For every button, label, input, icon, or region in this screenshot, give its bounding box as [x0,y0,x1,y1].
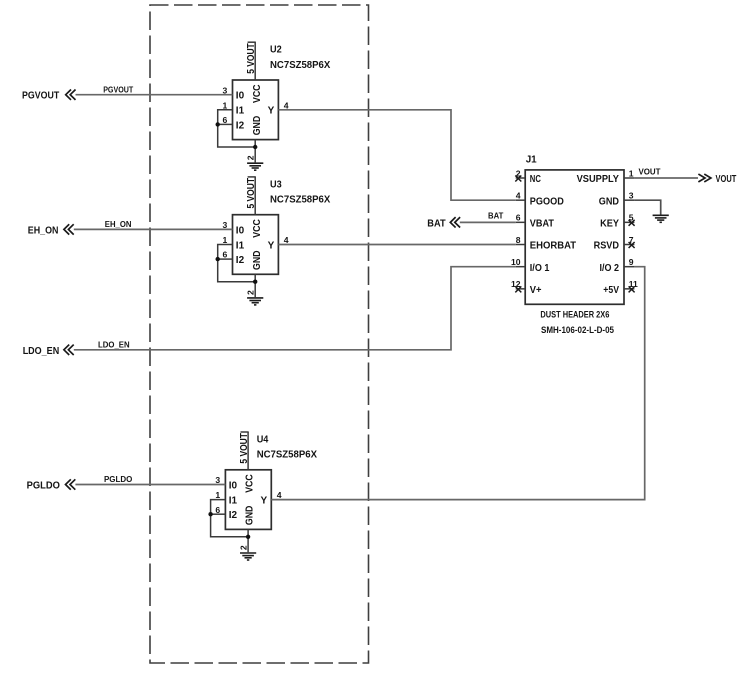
svg-text:PGLDO: PGLDO [27,480,60,492]
J1 pin 3 GND stub [624,199,634,201]
svg-text:4: 4 [284,235,289,245]
svg-text:+5V: +5V [603,285,619,296]
svg-text:9: 9 [629,257,634,267]
svg-text:I0: I0 [229,480,238,491]
wire J1 I/O 2 to U4 Y [271,267,644,500]
wire U2 Y to J1 PGOOD [278,110,515,200]
U3 pin 2 GND wire [254,274,256,297]
svg-text:5 VOUT: 5 VOUT [246,43,257,74]
svg-text:NC7SZ58P6X: NC7SZ58P6X [270,194,330,206]
svg-text:U4: U4 [257,434,269,446]
svg-text:6: 6 [215,505,220,515]
J1 pin 12 V+ stub [516,288,526,290]
U2 junction at I2 tie [216,122,220,126]
J1 pin 11 +5V stub [624,288,634,290]
svg-text:I/O 2: I/O 2 [600,263,620,274]
svg-text:2: 2 [246,155,256,160]
U2 I1-I2 tie wire to pin2 [218,110,256,147]
wire BAT to J1 VBAT [460,221,516,223]
wire PGVOUT to U2 I0 [76,94,233,96]
J1 pin 4 PGOOD stub [516,199,526,201]
svg-text:PGVOUT: PGVOUT [22,90,60,102]
svg-text:NC7SZ58P6X: NC7SZ58P6X [270,59,330,71]
svg-text:5 VOUT: 5 VOUT [239,433,250,464]
J1 pin 9 I/O 2 stub [624,266,634,268]
svg-text:I1: I1 [229,496,238,507]
U2 junction at pin2 tie [253,145,257,149]
svg-text:VCC: VCC [252,85,263,104]
J1 no-connect X pin 5 [629,220,635,226]
svg-text:I1: I1 [236,240,245,251]
J1 no-connect X pin 11 [629,286,635,292]
VOUT port flag [699,175,711,182]
svg-text:PGOOD: PGOOD [530,196,564,207]
U4 pin 2 GND wire [247,529,249,552]
J1 no-connect X pin 2 [515,176,521,182]
svg-text:I/O 1: I/O 1 [530,263,550,274]
U4 junction at pin2 tie [246,535,250,539]
svg-text:8: 8 [516,235,521,245]
U2 ground symbol [247,162,263,164]
svg-text:NC: NC [530,174,541,185]
svg-text:I0: I0 [236,225,245,236]
svg-text:EH_ON: EH_ON [105,220,132,229]
svg-text:GND: GND [252,251,263,271]
wire LDO_EN to J1 I/O 1 [74,267,516,350]
svg-text:4: 4 [284,100,289,110]
wire J1 VSUPPLY to VOUT flag [634,177,698,179]
svg-text:U2: U2 [270,44,282,56]
U2 pin 2 GND wire [254,140,256,163]
U4 junction at I2 tie [208,512,212,516]
svg-text:LDO_EN: LDO_EN [98,340,130,349]
svg-text:GND: GND [252,116,263,136]
svg-text:1: 1 [629,168,634,178]
svg-text:6: 6 [223,250,228,260]
svg-text:RSVD: RSVD [594,241,619,252]
svg-text:EH_ON: EH_ON [28,224,59,236]
wire EH_ON to U3 I0 [74,228,233,230]
svg-text:3: 3 [223,220,228,230]
J1 pin 5 KEY stub [624,221,634,223]
svg-text:I1: I1 [236,106,245,117]
J1 pin 8 EHORBAT stub [516,244,526,246]
svg-text:6: 6 [223,115,228,125]
svg-text:3: 3 [215,475,220,485]
svg-text:DUST HEADER 2X6: DUST HEADER 2X6 [540,309,609,320]
J1 no-connect X pin 12 [515,286,521,292]
svg-text:Y: Y [261,496,268,507]
svg-text:10: 10 [511,257,521,267]
U4 pin 5 VCC wire to VOUT net [247,432,249,470]
svg-text:J1: J1 [526,154,537,166]
U3 NC7SZ58P6X body [233,215,279,275]
svg-text:PGLDO: PGLDO [104,475,132,484]
svg-text:4: 4 [516,190,521,200]
svg-text:Y: Y [268,106,275,117]
wire J1 GND pin 3 to ground [634,200,660,214]
J1 pin 7 RSVD stub [624,244,634,246]
svg-text:4: 4 [277,490,282,500]
J1 pin 6 VBAT stub [516,221,526,223]
U4 I1-I2 tie wire to pin2 [211,500,249,537]
svg-text:I0: I0 [236,91,245,102]
U4 ground symbol [240,552,256,554]
svg-text:6: 6 [516,213,521,223]
svg-text:VOUT: VOUT [716,173,737,185]
wire PGLDO to U4 I0 [75,484,225,486]
U3 ground symbol [247,297,263,299]
svg-text:VSUPPLY: VSUPPLY [577,174,620,185]
svg-text:Y: Y [268,240,275,251]
wire U3 Y to J1 EHORBAT [278,244,515,246]
connector J1 body [525,170,624,304]
U3 junction at pin2 tie [253,280,257,284]
svg-text:2: 2 [246,290,256,295]
svg-text:SMH-106-02-L-D-05: SMH-106-02-L-D-05 [541,324,614,335]
J1 pin 2 NC stub [516,177,526,179]
dashed boundary box [150,5,369,663]
svg-text:VOUT: VOUT [639,168,661,177]
svg-text:U3: U3 [270,178,282,190]
svg-text:V+: V+ [530,285,542,296]
U2 NC7SZ58P6X body [233,80,279,140]
svg-text:I2: I2 [229,510,238,521]
svg-text:PGVOUT: PGVOUT [103,85,133,94]
svg-text:BAT: BAT [488,211,503,220]
svg-text:3: 3 [629,190,634,200]
J1 pin 10 I/O 1 stub [516,266,526,268]
U3 junction at I2 tie [216,257,220,261]
U3 I1-I2 tie wire to pin2 [218,245,256,282]
svg-text:BAT: BAT [427,217,446,229]
svg-text:2: 2 [239,545,249,550]
svg-text:NC7SZ58P6X: NC7SZ58P6X [257,449,317,461]
U2 pin 5 VCC wire to VOUT net [254,42,256,80]
svg-text:VBAT: VBAT [530,218,554,229]
svg-text:LDO_EN: LDO_EN [23,345,60,357]
svg-text:GND: GND [245,506,256,526]
J1 no-connect X pin 7 [629,242,635,248]
U3 pin 5 VCC wire to VOUT net [254,177,256,215]
svg-text:3: 3 [223,85,228,95]
ground symbol at J1 GND [653,214,669,216]
svg-text:VCC: VCC [252,219,263,238]
svg-text:I2: I2 [236,255,245,266]
svg-text:1: 1 [215,490,220,500]
svg-text:5 VOUT: 5 VOUT [246,178,257,209]
svg-text:1: 1 [223,235,228,245]
svg-text:1: 1 [223,100,228,110]
svg-text:KEY: KEY [600,218,619,229]
svg-text:EHORBAT: EHORBAT [530,241,576,252]
svg-text:I2: I2 [236,120,245,131]
svg-text:VCC: VCC [245,474,256,493]
U4 NC7SZ58P6X body [225,470,271,530]
J1 pin 1 VSUPPLY stub [624,177,634,179]
svg-text:GND: GND [599,196,619,207]
